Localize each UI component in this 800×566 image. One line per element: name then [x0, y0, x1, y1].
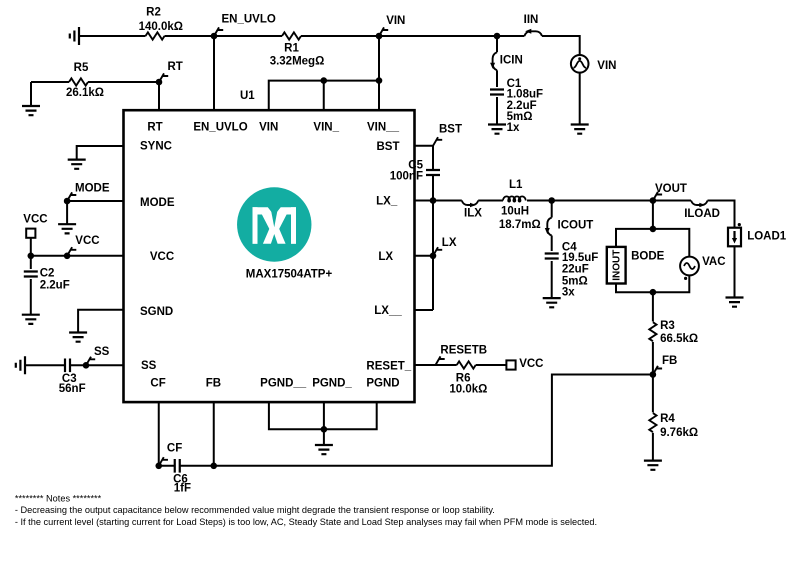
svg-text:ICIN: ICIN — [500, 54, 523, 66]
node PGND junction — [321, 426, 328, 433]
inductor L1 — [503, 196, 526, 201]
node EN_UVLO — [211, 33, 218, 40]
svg-text:10uH: 10uH — [501, 206, 529, 218]
svg-text:BST: BST — [377, 141, 400, 153]
svg-text:SS: SS — [94, 346, 110, 358]
svg-text:VIN__: VIN__ — [367, 121, 400, 133]
wire BST — [415, 146, 434, 170]
wire junction down to ICIN probe — [496, 36, 498, 52]
node CF — [155, 463, 162, 470]
ground (SGND) — [69, 333, 87, 342]
wire RESET_ pin — [415, 364, 457, 366]
svg-text:EN_UVLO: EN_UVLO — [222, 14, 276, 26]
svg-text:2.2uF: 2.2uF — [40, 280, 70, 292]
svg-text:BODE: BODE — [631, 251, 665, 263]
resistor R4 — [649, 413, 656, 432]
capacitor C4 — [545, 254, 559, 259]
ground (C4) — [543, 298, 561, 307]
svg-text:22uF: 22uF — [562, 263, 589, 275]
ground (C2) — [22, 315, 40, 324]
probe BODE INOUT box — [607, 247, 626, 284]
svg-text:VCC: VCC — [150, 251, 174, 263]
wire BODE bottom to R3 — [652, 292, 654, 321]
wire ground to C3 — [25, 364, 65, 366]
wire BODE top rail — [616, 229, 689, 257]
wire junction to ground — [323, 429, 325, 445]
wire LOAD1 to ground — [734, 246, 736, 297]
svg-text:RESET_: RESET_ — [366, 361, 411, 373]
node VCC label — [64, 253, 71, 260]
svg-text:IIN: IIN — [524, 14, 539, 26]
wire R6 to VCC terminal — [476, 364, 507, 366]
svg-text:SYNC: SYNC — [140, 141, 172, 153]
node MODE — [64, 198, 71, 205]
wire LX_ to ILX probe — [433, 200, 462, 202]
svg-text:PGND__: PGND__ — [260, 378, 307, 390]
current probe ILOAD — [691, 201, 708, 208]
wire junction down to ICOUT probe — [551, 201, 553, 218]
ground (below C1) — [488, 125, 506, 134]
node LX — [430, 253, 437, 260]
resistor R1 — [282, 32, 301, 39]
svg-text:FB: FB — [662, 355, 677, 367]
svg-text:CF: CF — [167, 442, 182, 454]
terminal VCC right — [506, 360, 515, 369]
wire IIN probe to corner — [542, 36, 580, 55]
svg-text:EN_UVLO: EN_UVLO — [193, 121, 247, 133]
wire SYNC to ground — [77, 146, 124, 160]
svg-text:INOUT: INOUT — [611, 250, 622, 281]
wire to VOUT node — [552, 200, 653, 202]
wire probe to C4 — [551, 236, 553, 252]
terminal VCC — [26, 229, 35, 238]
wire BODE bottom rail — [616, 275, 689, 292]
wire MODE — [67, 201, 123, 224]
wire C1 to ground — [496, 97, 498, 125]
svg-text:VCC: VCC — [519, 358, 543, 370]
ground (below R5 corner) — [30, 82, 32, 106]
svg-text:VAC: VAC — [702, 256, 725, 268]
wire R4 to ground — [652, 433, 654, 461]
svg-text:BST: BST — [439, 124, 462, 136]
node SS — [83, 362, 90, 369]
wire FB pin down — [213, 402, 215, 466]
svg-text:CF: CF — [150, 378, 165, 390]
capacitor C1 — [490, 90, 504, 95]
node VIN__ junction — [376, 77, 383, 84]
wire EN_UVLO to R1 — [214, 35, 282, 37]
svg-text:56nF: 56nF — [59, 383, 86, 395]
svg-text:VOUT: VOUT — [655, 183, 687, 195]
svg-text:******** Notes ********: ******** Notes ******** — [15, 494, 102, 504]
wire C4 to ground — [551, 261, 553, 298]
svg-text:PGND_: PGND_ — [312, 378, 352, 390]
node BODE top — [650, 226, 657, 233]
svg-text:R2: R2 — [146, 7, 161, 19]
node VIN — [376, 33, 383, 40]
wire CF pin down — [158, 402, 160, 466]
ground (SYNC) — [68, 160, 86, 169]
svg-text:ILX: ILX — [464, 208, 482, 220]
svg-text:C2: C2 — [40, 267, 55, 279]
capacitor C2 — [24, 272, 38, 277]
node VCC corner — [28, 253, 35, 260]
svg-text:R1: R1 — [284, 43, 299, 55]
node ICOUT junction — [548, 197, 555, 204]
svg-text:LOAD1: LOAD1 — [747, 231, 787, 243]
ground (MODE) — [58, 224, 76, 233]
wire C5 to LX rail — [415, 175, 434, 310]
wire ground to R2 — [79, 35, 146, 37]
svg-text:VCC: VCC — [23, 213, 47, 225]
svg-text:LX: LX — [442, 237, 457, 249]
svg-text:VIN: VIN — [259, 121, 278, 133]
node ICIN junction — [494, 33, 501, 40]
wire R3 to FB node — [652, 342, 654, 375]
svg-text:SGND: SGND — [140, 306, 173, 318]
wire PGND pins to common ground — [269, 402, 377, 429]
node BST tick — [433, 137, 442, 146]
svg-text:U1: U1 — [240, 90, 255, 102]
svg-text:C5: C5 — [408, 159, 423, 171]
wire EN_UVLO down to chip — [213, 36, 215, 110]
wire source to ground — [579, 73, 581, 125]
wire C6 to FB pin — [180, 465, 214, 467]
svg-text:FB: FB — [206, 378, 221, 390]
node LX_ junction — [430, 197, 437, 204]
svg-text:LX: LX — [378, 251, 393, 263]
wire RT node down to chip — [158, 82, 160, 110]
node VOUT — [650, 197, 657, 204]
wire VOUT to ILOAD probe — [653, 200, 691, 202]
svg-text:L1: L1 — [509, 179, 523, 191]
svg-text:MODE: MODE — [75, 182, 110, 194]
resistor R3 — [649, 322, 656, 341]
svg-text:VIN: VIN — [386, 15, 405, 27]
Maxim logo — [237, 187, 311, 261]
resistor R5 — [69, 78, 88, 85]
wire VCC terminal down — [30, 238, 32, 256]
node RT — [156, 79, 163, 86]
svg-text:ICOUT: ICOUT — [558, 219, 594, 231]
svg-text:LX_: LX_ — [376, 196, 398, 208]
wire SGND — [78, 310, 123, 333]
svg-text:1fF: 1fF — [174, 482, 191, 494]
svg-text:R5: R5 — [74, 62, 89, 74]
ground (below VIN source) — [571, 125, 589, 134]
wire ILOAD to LOAD1 — [708, 201, 735, 228]
wire C2 to ground — [30, 279, 32, 315]
source VAC — [680, 257, 699, 276]
wire R2 to EN_UVLO node — [165, 35, 215, 37]
wire VIN node to ICIN junction — [379, 35, 497, 37]
wire C3 to SS node — [70, 364, 124, 366]
wire VOUT down — [652, 201, 654, 229]
current probe ICOUT — [545, 218, 552, 236]
svg-text:- Decreasing the output capaci: - Decreasing the output capacitance belo… — [15, 505, 495, 515]
svg-text:SS: SS — [141, 360, 157, 372]
capacitor C5 — [426, 170, 440, 175]
resistor R6 — [457, 361, 476, 368]
svg-text:VIN_: VIN_ — [313, 121, 339, 133]
wire FB to R4 — [652, 375, 654, 413]
svg-text:VCC: VCC — [75, 235, 99, 247]
node FB — [650, 371, 657, 378]
svg-text:RT: RT — [168, 61, 183, 73]
ground (LOAD1) — [726, 298, 744, 307]
svg-text:PGND: PGND — [366, 378, 399, 390]
svg-text:19.5uF: 19.5uF — [562, 252, 598, 264]
current probe ICIN — [490, 52, 497, 70]
node BODE bottom — [650, 289, 657, 296]
wire corner to R5 — [31, 81, 69, 83]
load LOAD1 — [728, 228, 741, 247]
ground (left of R2, sideways) — [70, 27, 79, 45]
node VIN_ junction — [320, 77, 327, 84]
svg-text:R4: R4 — [660, 413, 675, 425]
wire FB node to chip FB net — [214, 375, 653, 466]
wire probe to C1 — [496, 70, 498, 87]
wire down to C2 — [30, 256, 32, 269]
svg-text:RESETB: RESETB — [440, 345, 487, 357]
svg-text:1x: 1x — [507, 122, 520, 134]
wire VIN node down to chip VIN__ pin — [378, 36, 380, 110]
svg-text:R3: R3 — [660, 320, 675, 332]
resistor R2 — [146, 32, 165, 39]
op-amp U1 body — [124, 110, 415, 402]
svg-text:LX__: LX__ — [374, 305, 402, 317]
node FB pin junction — [210, 463, 217, 470]
svg-text:9.76kΩ: 9.76kΩ — [660, 427, 698, 439]
wire ILX to L1 — [478, 200, 503, 202]
svg-text:140.0kΩ: 140.0kΩ — [139, 21, 183, 33]
svg-text:RT: RT — [147, 121, 162, 133]
wire junction to IIN probe — [497, 35, 524, 37]
svg-text:100nF: 100nF — [390, 171, 423, 183]
wire R1 to VIN node — [301, 35, 379, 37]
svg-text:- If the current level (starti: - If the current level (starting current… — [15, 517, 597, 527]
source VIN — [571, 55, 589, 73]
svg-text:26.1kΩ: 26.1kΩ — [66, 87, 104, 99]
svg-text:3x: 3x — [562, 286, 575, 298]
ground (left of C3, sideways) — [16, 356, 25, 374]
svg-text:MODE: MODE — [140, 197, 175, 209]
current probe IIN — [524, 29, 542, 36]
svg-text:1.08uF: 1.08uF — [507, 89, 543, 101]
svg-text:3.32MegΩ: 3.32MegΩ — [270, 56, 325, 68]
svg-text:66.5kΩ: 66.5kΩ — [660, 333, 698, 345]
wire CF to C6 — [159, 465, 175, 467]
svg-text:MAX17504ATP+: MAX17504ATP+ — [246, 269, 333, 281]
node RESETB tick — [436, 356, 445, 365]
wire VIN bus to VIN and VIN_ pins — [269, 81, 379, 111]
ground (R4) — [644, 461, 662, 470]
svg-text:10.0kΩ: 10.0kΩ — [449, 384, 487, 396]
svg-text:VIN: VIN — [597, 60, 616, 72]
svg-text:18.7mΩ: 18.7mΩ — [499, 219, 541, 231]
current probe ILX — [462, 201, 479, 208]
wire L1 to ICOUT junction — [527, 200, 552, 202]
wire R5 to RT node — [88, 81, 159, 83]
capacitor C3 — [65, 359, 70, 373]
capacitor C6 — [175, 459, 180, 473]
svg-text:ILOAD: ILOAD — [684, 208, 720, 220]
ground (PGND) — [315, 445, 333, 454]
wire VCC to chip — [31, 255, 124, 257]
